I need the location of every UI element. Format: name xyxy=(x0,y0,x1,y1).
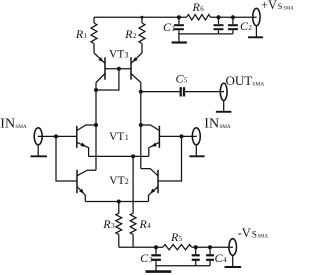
wire output to C5 xyxy=(141,91,181,93)
resistor R4 xyxy=(130,213,151,247)
svg-text:OUT: OUT xyxy=(226,73,253,88)
node C1 top xyxy=(177,15,181,19)
svg-text:SMA: SMA xyxy=(252,82,264,88)
capacitor C2 xyxy=(228,17,253,34)
svg-text:2: 2 xyxy=(248,24,252,32)
wire caps bottom link (bottom) xyxy=(156,265,210,267)
svg-text:2: 2 xyxy=(125,177,129,186)
node mid cap top xyxy=(217,15,221,19)
connector -Vs_SMA xyxy=(225,226,269,267)
node VT3 base junction xyxy=(117,67,121,71)
ground under C3 xyxy=(146,270,172,273)
node C2 top xyxy=(231,15,235,19)
svg-text:S: S xyxy=(252,229,257,239)
node mid cap bottom xyxy=(194,245,198,249)
wire left collector column xyxy=(95,83,97,171)
connector IN_SMA left xyxy=(0,117,47,157)
wire base-collector tie xyxy=(96,69,119,90)
wire VT2 left base xyxy=(56,136,77,181)
capacitor C3 xyxy=(140,247,161,270)
wire left input xyxy=(38,135,77,137)
connector OUT_SMA xyxy=(216,73,264,112)
node right input xyxy=(180,134,184,138)
svg-text:VT: VT xyxy=(109,175,124,187)
wire VT3 bases xyxy=(105,68,131,70)
node rail A to R4 xyxy=(131,154,135,158)
capacitor C5 xyxy=(176,72,188,97)
wire caps bottom link xyxy=(179,33,233,35)
transistor VT1 right (NPN) xyxy=(141,125,160,156)
svg-text:4: 4 xyxy=(147,222,151,230)
node VT1 right collector xyxy=(139,123,143,127)
wire bottom rail xyxy=(119,246,233,248)
svg-text:2: 2 xyxy=(133,32,137,40)
svg-text:R: R xyxy=(192,0,201,14)
svg-text:C: C xyxy=(215,251,224,265)
svg-text:+V: +V xyxy=(261,0,277,12)
wire top supply rail xyxy=(94,16,257,18)
svg-text:VT: VT xyxy=(109,131,124,143)
capacitor C4 xyxy=(206,247,227,266)
svg-text:SMA: SMA xyxy=(283,6,294,11)
capacitor mid (top) xyxy=(214,17,224,34)
svg-text:4: 4 xyxy=(223,256,227,264)
resistor R2 xyxy=(124,16,145,53)
svg-text:SMA: SMA xyxy=(258,234,269,239)
svg-text:5: 5 xyxy=(179,235,183,243)
svg-text:IN: IN xyxy=(0,117,15,132)
svg-text:R: R xyxy=(139,217,148,231)
connector +Vs_SMA xyxy=(248,0,294,37)
svg-text:1: 1 xyxy=(171,25,175,33)
svg-text:6: 6 xyxy=(200,5,204,13)
svg-text:3: 3 xyxy=(111,222,115,230)
transistor VT3 left (PNP, diode-connected) xyxy=(94,53,105,83)
capacitor mid (bottom) xyxy=(192,247,200,266)
connector IN_SMA right xyxy=(189,117,230,157)
node output tap xyxy=(139,90,143,94)
transistor VT2 left (NPN) xyxy=(77,170,96,202)
node rail B to R3 xyxy=(117,200,121,204)
resistor R5 xyxy=(163,230,192,250)
svg-text:3: 3 xyxy=(125,50,129,59)
wire C5 to OUT xyxy=(184,91,224,93)
svg-text:R: R xyxy=(102,217,111,231)
svg-text:S: S xyxy=(278,1,283,11)
svg-text:C: C xyxy=(140,251,149,265)
svg-text:SMA: SMA xyxy=(219,124,230,130)
node C4 top xyxy=(208,245,212,249)
svg-text:IN: IN xyxy=(204,117,219,132)
ground under C1 xyxy=(172,41,187,43)
wire VT2 right base xyxy=(158,136,182,181)
wire R4 drop xyxy=(132,156,134,213)
svg-text:1: 1 xyxy=(84,32,88,40)
wire right input xyxy=(159,135,196,137)
svg-text:R: R xyxy=(75,27,84,41)
capacitor C1 xyxy=(163,17,184,41)
transistor VT2 right (NPN) xyxy=(141,169,158,202)
transistor VT1 left (NPN) xyxy=(77,125,96,156)
node C3 top xyxy=(154,245,158,249)
node VT1 left collector xyxy=(94,123,98,127)
resistor R6 xyxy=(187,0,211,20)
svg-text:SMA: SMA xyxy=(15,124,26,130)
wire right collector column xyxy=(140,83,142,169)
svg-text:VT: VT xyxy=(109,48,124,60)
wire VT2 emitter rail xyxy=(85,201,148,203)
resistor R3 xyxy=(102,202,121,248)
svg-text:1: 1 xyxy=(125,133,129,142)
transistor VT3 right (PNP) xyxy=(131,53,142,83)
wire VT1 emitter rail xyxy=(89,155,149,157)
svg-text:R: R xyxy=(170,230,179,244)
node tie to left collector xyxy=(94,88,98,92)
node left input xyxy=(54,134,58,138)
svg-text:R: R xyxy=(124,27,133,41)
svg-text:3: 3 xyxy=(149,256,153,264)
svg-text:-V: -V xyxy=(238,226,251,240)
resistor R1 xyxy=(75,17,97,53)
svg-text:5: 5 xyxy=(184,77,188,85)
